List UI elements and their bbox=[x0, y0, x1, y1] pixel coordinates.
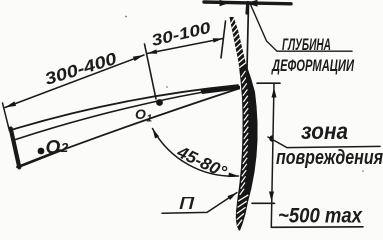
arrowhead arc lower bbox=[228, 173, 238, 178]
reference surface vertical line bbox=[247, 4, 249, 78]
dim 30-100: dimension line bbox=[147, 39, 223, 54]
dim 30-100: right extension line bbox=[221, 21, 226, 58]
svg-text:2: 2 bbox=[60, 140, 69, 155]
P label leader bbox=[162, 193, 237, 214]
arrowhead dim 30-100 right bbox=[213, 38, 223, 42]
arrowhead dim ~500 top bbox=[272, 88, 277, 98]
dim 300-400: dimension line bbox=[5, 55, 144, 108]
arrowhead arc upper bbox=[153, 129, 160, 139]
svg-text:~500 max: ~500 max bbox=[278, 205, 363, 228]
pivot dot O1 bbox=[156, 99, 163, 106]
zona leader junction blob bbox=[269, 135, 272, 142]
arrowhead depth dim right bbox=[246, 0, 258, 7]
arrowhead P leader bbox=[227, 193, 237, 201]
probe top edge bbox=[11, 85, 238, 130]
top deformation-depth dimension line bbox=[204, 2, 291, 4]
arrowhead dim 30-100 left bbox=[147, 49, 157, 53]
paper specks bbox=[125, 16, 364, 172]
svg-text:O: O bbox=[46, 138, 61, 159]
probe bottom edge bbox=[17, 89, 239, 168]
arrowhead dim ~500 bottom bbox=[269, 192, 274, 202]
probe middle edge bbox=[13, 87, 234, 141]
reference line thick top stub bbox=[245, 3, 249, 14]
~500 text underline bbox=[271, 226, 363, 229]
angle arc 45-80 bbox=[153, 129, 239, 177]
zona leader line bbox=[268, 137, 380, 148]
svg-text:1: 1 bbox=[147, 114, 153, 125]
shared extension line at O1 bbox=[145, 44, 157, 99]
probe bottom-left thick edge bbox=[18, 151, 60, 168]
arrowhead depth dim left bbox=[220, 0, 230, 6]
~500 top tick bbox=[257, 82, 280, 84]
svg-text:O: O bbox=[135, 106, 146, 122]
svg-text:повреждения: повреждения bbox=[276, 147, 383, 169]
svg-text:ДЕФОРМАЦИИ: ДЕФОРМАЦИИ bbox=[271, 56, 355, 75]
panel band (deformed panel cross-section) bbox=[230, 17, 258, 231]
glubina leader line bbox=[251, 5, 353, 52]
svg-text:п: п bbox=[179, 189, 195, 214]
~500 bottom tick bbox=[252, 202, 275, 204]
svg-text:ГЛУБИНА: ГЛУБИНА bbox=[282, 35, 331, 54]
pivot dot O2 bbox=[38, 148, 45, 155]
dim 300-400: left extension line bbox=[3, 103, 10, 131]
arrowhead dim 300-400 left bbox=[5, 101, 16, 107]
arrowhead dim 300-400 right bbox=[133, 55, 144, 61]
svg-text:зона: зона bbox=[301, 118, 348, 144]
probe tip fill bbox=[200, 86, 240, 94]
probe left end cap bbox=[11, 129, 20, 168]
~500 dimension vertical line bbox=[271, 84, 274, 228]
